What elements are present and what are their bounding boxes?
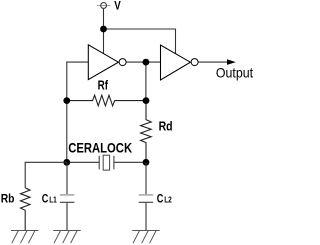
capacitor CL2 [145, 162, 147, 194]
resistor Rf [67, 95, 146, 106]
svg-text:Rf: Rf [98, 79, 109, 93]
svg-text:C: C [42, 191, 49, 205]
svg-text:Rb: Rb [1, 192, 15, 206]
resonator ceramic element [99, 156, 114, 170]
inverter 2 bubble [191, 59, 198, 66]
svg-text:C: C [157, 191, 164, 205]
wire node to Rf/Rd vertical [145, 62, 147, 101]
node Rf left junction [63, 97, 70, 104]
wire output with arrow [198, 61, 227, 63]
power terminal gray line [97, 5, 111, 7]
ground CL1 [53, 231, 80, 244]
wire resonator rail [67, 161, 146, 163]
wire to Rb [25, 162, 67, 188]
capacitor CL1 [66, 162, 68, 194]
resistor Rb [21, 188, 31, 231]
svg-text:L1: L1 [49, 194, 57, 204]
inverter 1 bubble [119, 59, 126, 66]
node resonator right junction [143, 159, 150, 166]
svg-text:V: V [114, 0, 121, 13]
wire inverter1 output to inverter2 input [123, 61, 161, 63]
node Rf right junction [143, 97, 150, 104]
svg-text:Output: Output [216, 65, 253, 81]
op-amp inverter 2 [161, 45, 191, 80]
power terminal circle V [101, 3, 107, 9]
wire V supply vertical [103, 9, 105, 54]
svg-text:CERALOCK: CERALOCK [68, 140, 132, 156]
op-amp inverter 1 [88, 45, 118, 80]
ground Rb [11, 231, 39, 244]
node inv1 out junction [143, 59, 150, 66]
wire inverter1 input from left rail [67, 62, 89, 162]
node resonator left junction [63, 159, 70, 166]
wire top supply rail to inverter 2 [104, 29, 176, 54]
svg-text:L2: L2 [164, 194, 172, 204]
resistor Rd [141, 101, 152, 162]
svg-text:Rd: Rd [159, 119, 173, 134]
ground CL2 [132, 231, 160, 244]
node supply junction [100, 26, 107, 33]
